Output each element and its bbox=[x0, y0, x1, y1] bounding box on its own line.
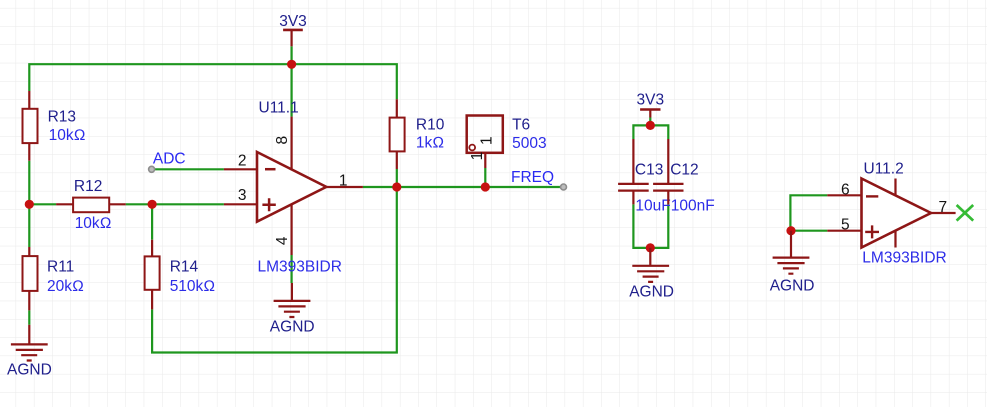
wire R14 bottom feedback to output node bbox=[152, 187, 397, 353]
svg-text:AGND: AGND bbox=[770, 277, 815, 294]
svg-text:R12: R12 bbox=[74, 178, 102, 195]
wire mid 3V3 stub bbox=[649, 118, 651, 126]
wire 3V3 stub to rail bbox=[291, 46, 293, 64]
svg-text:LM393BIDR: LM393BIDR bbox=[258, 258, 342, 275]
svg-text:10kΩ: 10kΩ bbox=[75, 215, 112, 232]
power port 3V3 top bbox=[283, 30, 303, 46]
junction output node at R10 bbox=[392, 182, 401, 191]
wire pin4 to ground bbox=[291, 255, 293, 283]
pin 8 of U11.1 bbox=[291, 117, 293, 171]
resistor R13 bbox=[23, 91, 38, 161]
svg-text:5: 5 bbox=[841, 217, 850, 234]
capacitor C12 bbox=[653, 139, 683, 204]
svg-text:AGND: AGND bbox=[7, 362, 52, 379]
node FREQ unconnected end bbox=[561, 184, 567, 190]
ground AGND mid bbox=[632, 248, 669, 282]
junction pin5 ground node bbox=[786, 226, 795, 235]
svg-text:C12: C12 bbox=[670, 161, 698, 178]
svg-text:7: 7 bbox=[939, 199, 948, 216]
pin 6 of U11.2 bbox=[827, 194, 861, 196]
junction node 3V3 rail bbox=[287, 60, 296, 69]
svg-text:100nF: 100nF bbox=[671, 197, 715, 214]
svg-text:R11: R11 bbox=[47, 258, 74, 275]
pin 3 of U11.1 bbox=[224, 203, 257, 205]
svg-text:2: 2 bbox=[238, 152, 247, 169]
resistor R14 bbox=[145, 240, 160, 310]
svg-text:1kΩ: 1kΩ bbox=[416, 135, 444, 152]
svg-text:20kΩ: 20kΩ bbox=[47, 278, 84, 295]
wire node A to R12 and R11 bbox=[29, 204, 56, 247]
svg-text:510kΩ: 510kΩ bbox=[170, 278, 216, 295]
svg-text:U11.1: U11.1 bbox=[259, 100, 299, 117]
junction node A bbox=[25, 200, 34, 209]
svg-text:R13: R13 bbox=[48, 109, 76, 126]
junction caps top bbox=[646, 121, 655, 130]
wire R11 bottom to ground bbox=[28, 310, 30, 324]
wire caps bottom net AGND bbox=[633, 204, 668, 248]
resistor R12 bbox=[56, 198, 126, 213]
wire T6 pin to output node bbox=[484, 168, 486, 187]
wire node B down to R14 bbox=[151, 204, 153, 239]
wire caps top net 3V3 bbox=[633, 125, 668, 139]
svg-text:FREQ: FREQ bbox=[511, 169, 554, 186]
svg-text:C13: C13 bbox=[635, 161, 663, 178]
ground AGND left bbox=[11, 325, 48, 361]
wire pin6 pin5 to ground node bbox=[790, 195, 827, 230]
svg-text:R14: R14 bbox=[170, 259, 199, 276]
op-amp U11.1 bbox=[257, 152, 326, 222]
svg-text:8: 8 bbox=[274, 136, 291, 145]
svg-text:R10: R10 bbox=[416, 117, 445, 134]
node ADC unconnected end bbox=[149, 166, 155, 172]
capacitor C13 bbox=[618, 139, 649, 204]
wire node B to pin3 bbox=[152, 203, 224, 205]
svg-text:10kΩ: 10kΩ bbox=[49, 127, 86, 144]
svg-text:6: 6 bbox=[841, 181, 850, 198]
svg-text:4: 4 bbox=[274, 236, 291, 245]
pin 4 of U11.1 bbox=[291, 204, 293, 255]
svg-text:AGND: AGND bbox=[270, 319, 315, 336]
wire R10 bottom to output node bbox=[396, 169, 398, 187]
wire net ADC to pin2 bbox=[155, 168, 224, 170]
svg-text:3V3: 3V3 bbox=[637, 92, 665, 109]
svg-text:AGND: AGND bbox=[629, 284, 674, 301]
svg-text:1: 1 bbox=[469, 152, 486, 161]
wire output net FREQ bbox=[363, 186, 563, 188]
ground AGND under U11.1 bbox=[274, 283, 311, 317]
wire net 3V3 top rail bbox=[29, 64, 397, 99]
pin 2 of U11.1 bbox=[224, 168, 257, 170]
no-connect cross on pin 7 bbox=[957, 205, 974, 221]
svg-text:10uF: 10uF bbox=[635, 197, 670, 214]
svg-text:T6: T6 bbox=[512, 117, 530, 134]
junction node B bbox=[148, 200, 157, 209]
power port 3V3 mid bbox=[640, 110, 660, 118]
junction output node at T6 bbox=[481, 182, 490, 191]
op-amp U11.2 bbox=[862, 179, 932, 248]
wire R12 right to node B bbox=[126, 203, 152, 205]
svg-text:1: 1 bbox=[478, 136, 495, 145]
test point T6 bbox=[467, 116, 503, 169]
svg-text:LM393BIDR: LM393BIDR bbox=[862, 249, 946, 266]
junction caps bottom bbox=[646, 243, 655, 252]
svg-text:5003: 5003 bbox=[512, 135, 546, 152]
resistor R10 bbox=[390, 99, 405, 169]
svg-text:1: 1 bbox=[339, 172, 348, 189]
wire pin8 drop from rail bbox=[291, 64, 293, 116]
wire R13 bottom to node A bbox=[28, 161, 30, 205]
pin 5 of U11.2 bbox=[827, 230, 861, 232]
svg-text:U11.2: U11.2 bbox=[864, 161, 904, 178]
svg-text:3V3: 3V3 bbox=[279, 13, 307, 30]
ground AGND right bbox=[773, 231, 810, 274]
pin 1 of U11.1 bbox=[326, 186, 363, 188]
svg-text:3: 3 bbox=[238, 187, 247, 204]
pin 7 of U11.2 bbox=[931, 212, 956, 214]
resistor R11 bbox=[23, 247, 38, 310]
svg-text:ADC: ADC bbox=[153, 151, 186, 168]
